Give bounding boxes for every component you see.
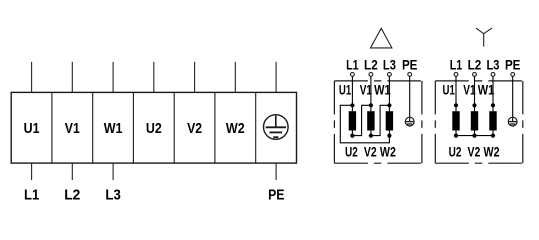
wire top terminal 5 <box>194 62 196 93</box>
terminal circle PE (delta) <box>408 73 412 77</box>
wire L3 to W1 (delta) <box>388 76 390 111</box>
wire stub bar2 bottom (star) <box>474 131 476 136</box>
wire top terminal 4 <box>153 62 155 93</box>
link bar 1 (delta U1-U2) <box>349 111 356 130</box>
svg-text:PE: PE <box>268 186 284 203</box>
wire L2 to V1 (delta) <box>370 76 372 111</box>
junction U1 (delta) <box>350 103 354 107</box>
star (wye) connection symbol <box>476 28 492 46</box>
svg-text:U2: U2 <box>449 144 462 160</box>
svg-text:L1: L1 <box>24 186 39 203</box>
terminal circle L2 (delta) <box>369 73 373 77</box>
svg-text:U2: U2 <box>146 120 162 137</box>
junction V1 (star) <box>472 103 476 107</box>
svg-text:W1: W1 <box>374 82 391 98</box>
svg-text:L3: L3 <box>105 186 120 203</box>
wire U2 to V1 (delta) <box>352 105 371 135</box>
terminal circle L1 (delta) <box>351 73 355 77</box>
terminal circle L3 (delta) <box>388 73 392 77</box>
svg-text:W2: W2 <box>380 144 396 160</box>
terminal block X1 <box>11 92 296 163</box>
svg-text:L3: L3 <box>487 57 500 73</box>
svg-text:L2: L2 <box>364 57 378 73</box>
terminal circle L3 (star) <box>491 73 495 77</box>
link bar 2 (delta V1-V2) <box>367 111 374 130</box>
svg-text:V1: V1 <box>65 120 80 137</box>
wire star point U2-V2-W2 <box>456 135 493 137</box>
link bar 2 (star V1-V2) <box>471 111 478 130</box>
svg-text:L2: L2 <box>468 57 482 73</box>
svg-text:W2: W2 <box>226 120 245 137</box>
terminal circle L2 (star) <box>473 73 477 77</box>
wire L1 to U1 (delta) <box>351 76 353 111</box>
svg-text:V2: V2 <box>364 144 377 160</box>
wire V2 to W1 (delta) <box>371 105 390 135</box>
wire bottom L1 <box>31 163 33 180</box>
wire L3 to W1 (star) <box>492 76 494 111</box>
wire PE drop (delta) <box>409 76 411 121</box>
svg-text:L2: L2 <box>64 186 80 203</box>
svg-text:L1: L1 <box>450 57 463 73</box>
junction V1 (delta) <box>369 103 373 107</box>
wire stub bar3 bottom (star) <box>492 131 494 136</box>
wire stub bar3 bottom (delta) <box>388 131 390 136</box>
wire U1 to W2 (delta loop) <box>340 105 389 143</box>
wire top terminal 6 <box>234 62 236 93</box>
svg-text:U2: U2 <box>345 144 358 160</box>
terminal circle PE (star) <box>511 73 515 77</box>
link bar 3 (star W1-W2) <box>489 111 496 130</box>
wire stub bar1 bottom (star) <box>455 131 457 136</box>
wire stub bar2 bottom (delta) <box>370 131 372 136</box>
wire bottom PE <box>275 163 277 180</box>
svg-text:L3: L3 <box>383 57 396 73</box>
wire stub bar1 bottom (delta) <box>351 131 353 136</box>
junction V2 (star) <box>472 134 476 138</box>
wire PE drop (star) <box>512 76 514 121</box>
svg-text:W2: W2 <box>484 144 500 160</box>
svg-text:V1: V1 <box>360 82 372 98</box>
svg-text:V1: V1 <box>463 82 475 98</box>
svg-text:L1: L1 <box>346 57 359 73</box>
wire top terminal PE <box>275 62 277 93</box>
wire bottom L3 <box>112 163 114 180</box>
wire L2 to V1 (star) <box>474 76 476 111</box>
svg-text:W1: W1 <box>478 82 495 98</box>
junction U2 (delta) <box>350 134 354 138</box>
wire top terminal 1 <box>31 62 33 93</box>
svg-text:U1: U1 <box>24 120 40 137</box>
wire top terminal 2 <box>71 62 73 93</box>
junction W2 (star) <box>491 134 495 138</box>
junction W1 (star) <box>491 103 495 107</box>
earth symbol (star) <box>508 117 517 126</box>
junction V2 (delta) <box>369 134 373 138</box>
junction W1 (delta) <box>387 103 391 107</box>
wire bottom L2 <box>71 163 73 180</box>
svg-text:V2: V2 <box>468 144 481 160</box>
PE protective-earth terminal symbol <box>264 115 289 140</box>
link bar 1 (star U1-U2) <box>452 111 459 130</box>
svg-text:PE: PE <box>402 57 418 73</box>
earth symbol (delta) <box>405 117 414 126</box>
link bar 3 (delta W1-W2) <box>386 111 393 130</box>
svg-text:W1: W1 <box>104 120 123 137</box>
junction W2 (delta) <box>387 134 391 138</box>
svg-text:U1: U1 <box>443 82 455 98</box>
wire L1 to U1 (star) <box>455 76 457 111</box>
junction U1 (star) <box>454 103 458 107</box>
svg-text:U1: U1 <box>339 82 351 98</box>
terminal circle L1 (star) <box>454 73 458 77</box>
svg-text:PE: PE <box>505 57 521 73</box>
wire top terminal 3 <box>112 62 114 93</box>
delta enclosure (dashed) <box>334 81 422 163</box>
svg-text:V2: V2 <box>187 120 202 137</box>
junction U2 (star) <box>454 134 458 138</box>
star enclosure (dashed) <box>435 81 523 163</box>
delta connection symbol <box>371 28 392 48</box>
